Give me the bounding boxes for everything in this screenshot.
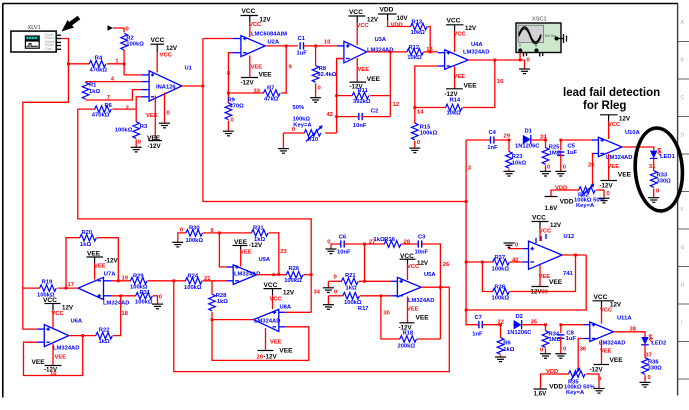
wire scope ground reference node 0 xyxy=(525,58,530,70)
svg-text:VEE: VEE xyxy=(259,71,273,78)
svg-text:10nF: 10nF xyxy=(353,123,367,129)
wire U8A plus input from node2 rail xyxy=(286,311,312,313)
svg-text:VEE: VEE xyxy=(454,74,466,80)
svg-text:-12V: -12V xyxy=(600,183,614,190)
svg-text:12V: 12V xyxy=(166,45,178,52)
ground below R36 xyxy=(640,382,651,387)
ground below R33 xyxy=(648,198,659,203)
VCC supply at U11A xyxy=(593,294,622,324)
resistor R14 feedback xyxy=(415,60,495,117)
svg-text:R19: R19 xyxy=(42,280,53,286)
resistor R17 xyxy=(328,289,390,312)
svg-text:VCC: VCC xyxy=(249,22,262,28)
ground at R30 left xyxy=(172,242,183,247)
svg-text:VCC: VCC xyxy=(400,253,414,260)
svg-text:1N1206C: 1N1206C xyxy=(515,144,540,150)
svg-text:R18: R18 xyxy=(403,330,414,336)
connector symbol node 0 at R2 top xyxy=(108,25,129,32)
svg-text:14: 14 xyxy=(417,110,424,116)
svg-text:16: 16 xyxy=(497,79,504,85)
svg-text:0: 0 xyxy=(527,58,530,64)
wire node 4 to U1 pin2 xyxy=(86,81,142,83)
svg-text:0: 0 xyxy=(648,375,651,381)
svg-text:R8: R8 xyxy=(319,66,327,72)
svg-text:U7A: U7A xyxy=(104,272,116,278)
svg-text:100kΩ: 100kΩ xyxy=(135,300,153,306)
svg-text:0: 0 xyxy=(515,242,518,248)
svg-text:VCC: VCC xyxy=(160,53,173,59)
VCC supply at U10A xyxy=(600,115,631,139)
svg-text:10kΩ: 10kΩ xyxy=(411,30,426,36)
svg-text:for Rleg: for Rleg xyxy=(583,100,626,112)
resistor R15 to ground xyxy=(412,123,438,148)
resistor R3 xyxy=(115,109,148,147)
ground at U12 plus xyxy=(504,243,515,248)
svg-text:12V: 12V xyxy=(260,17,272,24)
svg-text:R17: R17 xyxy=(358,306,369,312)
svg-text:0: 0 xyxy=(547,165,550,171)
VEE supply at U4A xyxy=(445,67,478,98)
feedback wire U5A output down to bottom long rail xyxy=(174,281,450,372)
U1 ground pin node 0 xyxy=(165,93,170,124)
VEE supply at U12 xyxy=(529,265,563,295)
svg-text:100kΩ: 100kΩ xyxy=(186,238,204,244)
VCC supply at U6A xyxy=(43,297,74,328)
svg-text:R21: R21 xyxy=(345,273,356,279)
svg-text:1.6V: 1.6V xyxy=(534,391,548,398)
svg-text:50%: 50% xyxy=(293,105,305,111)
svg-text:LM324AD: LM324AD xyxy=(599,341,625,347)
svg-text:100kΩ: 100kΩ xyxy=(492,296,510,302)
VCC supply at U2A xyxy=(241,8,272,37)
svg-text:1uF: 1uF xyxy=(566,336,577,342)
resistor R36 xyxy=(642,345,662,383)
svg-text:470Ω: 470Ω xyxy=(230,104,245,110)
ground below R25 xyxy=(540,171,551,176)
svg-text:35: 35 xyxy=(531,319,538,325)
svg-text:VCC: VCC xyxy=(52,311,65,317)
svg-text:0: 0 xyxy=(318,86,321,92)
wire chain to U11A plus xyxy=(561,324,583,326)
svg-text:0: 0 xyxy=(656,189,659,195)
svg-text:0: 0 xyxy=(126,27,129,33)
svg-text:VEE: VEE xyxy=(610,357,624,364)
svg-text:40: 40 xyxy=(512,257,518,263)
wire U10A output to LED1 xyxy=(622,147,654,151)
svg-text:VEE: VEE xyxy=(407,307,419,313)
ground at U1 pin xyxy=(159,123,170,128)
svg-text:-12V: -12V xyxy=(105,257,119,264)
svg-text:LED1: LED1 xyxy=(660,154,676,160)
svg-text:R16: R16 xyxy=(384,237,395,243)
op-amp U11A LM324AD xyxy=(583,316,632,347)
svg-text:R7: R7 xyxy=(267,85,274,91)
op-amp U3A LM324AD xyxy=(337,37,394,63)
svg-text:1kΩ: 1kΩ xyxy=(503,347,514,353)
svg-text:C3: C3 xyxy=(418,234,426,240)
svg-text:C7: C7 xyxy=(475,315,482,321)
resistor R28 xyxy=(209,281,229,320)
svg-text:38: 38 xyxy=(630,327,637,333)
resistor R6b to ground xyxy=(497,323,515,357)
svg-text:1kΩ: 1kΩ xyxy=(89,89,100,95)
svg-text:VEE: VEE xyxy=(549,279,563,286)
wire node 7 to U1 pin3 xyxy=(86,90,142,100)
svg-text:I: I xyxy=(681,320,682,326)
wire C6 junction down to U5A plus row xyxy=(364,244,366,281)
resistor R9 470ohm to ground xyxy=(225,92,244,132)
svg-text:LMC6084AIM: LMC6084AIM xyxy=(251,31,287,37)
svg-text:-12V: -12V xyxy=(264,354,278,361)
svg-text:0: 0 xyxy=(334,275,337,281)
svg-text:VEE: VEE xyxy=(234,239,248,246)
svg-text:C5: C5 xyxy=(567,144,575,150)
VEE supply at U7A xyxy=(87,250,119,279)
rail x=203: U2A plus input down to long horizontal xyxy=(203,39,466,202)
svg-text:VCC: VCC xyxy=(242,8,256,15)
wire R32 right to ground xyxy=(604,190,610,198)
svg-text:C: C xyxy=(681,95,685,101)
resistor R24 xyxy=(184,274,227,292)
svg-text:VEE: VEE xyxy=(464,82,478,89)
svg-text:34: 34 xyxy=(314,290,321,296)
svg-text:1kΩ: 1kΩ xyxy=(99,339,110,345)
svg-text:20: 20 xyxy=(257,355,263,361)
op-amp U6A LM324AD xyxy=(37,319,83,352)
svg-text:VCC: VCC xyxy=(532,215,546,222)
svg-text:10kΩ: 10kΩ xyxy=(447,111,462,117)
VCC supply at U8A xyxy=(264,282,295,309)
op-amp U1 INA126 xyxy=(142,65,193,101)
svg-text:VCC: VCC xyxy=(407,264,420,270)
svg-text:33: 33 xyxy=(254,89,261,95)
svg-text:R15: R15 xyxy=(420,125,431,131)
svg-text:100kΩ: 100kΩ xyxy=(492,266,510,272)
resistor R23 to ground xyxy=(506,139,527,172)
svg-text:LED2: LED2 xyxy=(651,341,666,347)
wire U6A minus feedback loop xyxy=(24,334,85,375)
ground below R8 xyxy=(310,98,321,103)
VEE supply at U3A xyxy=(350,58,381,91)
ground below R34 xyxy=(540,354,551,359)
ground at R32 right xyxy=(599,198,610,203)
wire U10A minus to R32 wiper, node 26 xyxy=(588,154,595,185)
svg-text:U1: U1 xyxy=(185,65,193,71)
svg-text:VCC: VCC xyxy=(608,122,621,128)
svg-text:0: 0 xyxy=(607,191,610,197)
ground at R31b right xyxy=(152,304,163,309)
resistor R19 xyxy=(23,280,56,299)
wire node2 rail down-right (long horizontal y=218.9) xyxy=(78,111,311,313)
svg-text:U12: U12 xyxy=(564,234,575,240)
svg-text:1kΩ: 1kΩ xyxy=(217,299,228,305)
svg-text:C2: C2 xyxy=(371,108,378,114)
wire U11A output to LED2 xyxy=(613,327,645,338)
svg-text:D: D xyxy=(681,133,685,139)
svg-text:31: 31 xyxy=(649,164,656,170)
annotation arrow xyxy=(62,18,80,32)
svg-text:VCC: VCC xyxy=(151,37,165,44)
wire U2A minus loop down to R7 row xyxy=(228,53,232,93)
svg-text:1uF: 1uF xyxy=(567,150,578,156)
ground below R23 xyxy=(504,171,515,176)
svg-text:100kΩ: 100kΩ xyxy=(344,300,362,306)
wire U4A minus loop down to R14 row and R15 xyxy=(415,66,438,123)
wire junction down-left rail to U7A input xyxy=(23,64,69,288)
svg-text:330Ω: 330Ω xyxy=(648,365,663,371)
resistor R6 xyxy=(78,103,136,118)
resistor R16 xyxy=(363,237,418,247)
diode D1 1N1206C xyxy=(515,129,546,150)
svg-text:-12V: -12V xyxy=(148,143,162,150)
op-amp U7A LM324AD (points left) xyxy=(78,272,129,307)
svg-text:LM324AD: LM324AD xyxy=(254,319,280,325)
svg-text:Key=A: Key=A xyxy=(566,390,585,396)
resistor R31b on U7A plus row xyxy=(112,290,162,306)
VDD supply at R35 xyxy=(534,369,564,398)
svg-text:VCC: VCC xyxy=(539,228,552,234)
op-amp U8A LM324AD (points left) xyxy=(254,305,292,332)
wire R35 right to ground xyxy=(598,374,601,389)
resistor R37 xyxy=(466,255,522,272)
node 42 and potentiometer R10 xyxy=(293,105,333,129)
svg-text:VCC: VCC xyxy=(357,23,370,29)
svg-text:VEE: VEE xyxy=(416,314,430,321)
node 9 vertical from output to R7 right xyxy=(285,46,287,93)
potentiometer R35 xyxy=(553,368,599,397)
svg-text:0: 0 xyxy=(167,111,170,117)
op-amp U12 741 xyxy=(523,234,575,277)
capacitor C5 to ground xyxy=(557,139,577,172)
wire U6A output to R22 xyxy=(69,335,96,337)
VEE supply at U8A xyxy=(257,328,294,361)
svg-text:U5A: U5A xyxy=(424,272,436,278)
resistor R34 to ground xyxy=(540,323,562,353)
svg-text:R23: R23 xyxy=(512,154,523,160)
svg-text:VEE: VEE xyxy=(147,135,161,142)
ground below R3 xyxy=(131,147,142,152)
svg-text:VDD: VDD xyxy=(555,185,567,191)
capacitor C7 xyxy=(466,310,500,337)
svg-text:0: 0 xyxy=(180,228,183,234)
svg-text:30: 30 xyxy=(383,311,389,317)
svg-text:R3: R3 xyxy=(140,124,148,130)
VCC supply at U4A xyxy=(446,18,477,52)
ground below R5 xyxy=(223,131,234,136)
svg-text:470kΩ: 470kΩ xyxy=(92,113,110,119)
LED LED1 xyxy=(650,148,676,160)
svg-text:VCC: VCC xyxy=(270,297,283,303)
svg-text:R29: R29 xyxy=(133,274,144,280)
wire U9A output xyxy=(257,273,287,276)
svg-text:12V: 12V xyxy=(619,116,631,123)
svg-text:100kΩ: 100kΩ xyxy=(293,116,311,122)
svg-text:R20: R20 xyxy=(82,230,93,236)
svg-text:12V: 12V xyxy=(465,25,477,32)
svg-text:0: 0 xyxy=(540,348,543,354)
svg-text:1kΩ: 1kΩ xyxy=(80,242,91,248)
VEE supply at U5A xyxy=(399,297,430,332)
wire R10 left to ground xyxy=(283,127,295,149)
svg-text:0: 0 xyxy=(417,140,420,146)
svg-text:12V: 12V xyxy=(62,304,74,311)
resistor R21 xyxy=(328,273,390,291)
resistor R18 xyxy=(398,330,441,349)
svg-text:36: 36 xyxy=(580,347,587,353)
VEE supply at U9A xyxy=(233,239,263,267)
svg-text:1uF: 1uF xyxy=(297,51,308,57)
capacitor C3 xyxy=(415,234,441,339)
annotation ellipse around LED1 xyxy=(632,126,685,212)
svg-text:R38: R38 xyxy=(495,285,506,291)
svg-text:VCC: VCC xyxy=(264,282,278,289)
svg-text:VEE: VEE xyxy=(240,250,252,256)
resistor R4 xyxy=(68,56,124,74)
svg-text:0: 0 xyxy=(598,377,601,383)
svg-text:U3A: U3A xyxy=(375,37,387,43)
VCC supply at U12 xyxy=(532,215,562,242)
svg-text:VDD: VDD xyxy=(380,7,394,14)
resistor R38 xyxy=(482,255,575,302)
svg-text:1.6V: 1.6V xyxy=(545,205,559,212)
svg-text:R14: R14 xyxy=(450,98,461,104)
VCC supply at U3A xyxy=(349,9,379,45)
svg-text:12V: 12V xyxy=(283,289,295,296)
resistor R31 feedback xyxy=(219,226,287,276)
wire U11A minus to R35 wiper, node 36 xyxy=(578,339,587,369)
wire XLV1 pin2 to node junction xyxy=(61,39,68,64)
svg-text:R30: R30 xyxy=(189,226,200,232)
op-amp U10A LM324AD xyxy=(592,130,641,161)
svg-text:VDD: VDD xyxy=(546,369,558,375)
svg-text:H: H xyxy=(681,283,685,289)
svg-text:R9: R9 xyxy=(228,97,236,103)
svg-text:10kΩ: 10kΩ xyxy=(407,55,422,61)
svg-text:R4: R4 xyxy=(95,56,103,62)
svg-text:LM324AD: LM324AD xyxy=(103,301,129,307)
svg-text:-12V: -12V xyxy=(590,367,604,374)
svg-text:LM324AD: LM324AD xyxy=(606,155,632,161)
resistor R29 xyxy=(112,274,186,291)
wire U8A minus feedback loop xyxy=(211,318,309,360)
svg-text:0: 0 xyxy=(159,295,162,301)
svg-text:2: 2 xyxy=(126,105,129,111)
wire R2 bottom to U1 pin1 xyxy=(124,64,142,75)
annotation text lead fail detection xyxy=(563,87,660,112)
svg-text:392kΩ: 392kΩ xyxy=(353,99,371,105)
svg-text:29: 29 xyxy=(504,133,511,139)
svg-text:U10A: U10A xyxy=(625,130,641,136)
svg-text:VEE: VEE xyxy=(358,67,370,73)
wire node2 to U1 pin4 xyxy=(136,97,141,109)
svg-text:47kΩ: 47kΩ xyxy=(264,97,279,103)
svg-text:330Ω: 330Ω xyxy=(657,179,672,185)
resistor R33 xyxy=(650,158,671,197)
svg-text:D1: D1 xyxy=(525,129,533,135)
wire U12 plus to ground xyxy=(509,242,523,248)
svg-text:7: 7 xyxy=(107,95,110,101)
svg-text:lead fail detection: lead fail detection xyxy=(563,87,660,99)
svg-text:12: 12 xyxy=(393,102,399,108)
ground below C5 xyxy=(555,171,566,176)
svg-text:R24: R24 xyxy=(188,274,199,280)
svg-text:F: F xyxy=(681,208,684,214)
svg-text:VEE: VEE xyxy=(94,264,106,270)
svg-text:VEE: VEE xyxy=(367,76,381,83)
svg-text:VEE: VEE xyxy=(618,172,632,179)
resistor R7 xyxy=(228,85,287,102)
wire node 6 down to U9A plus xyxy=(218,232,227,268)
potentiometer R32 xyxy=(563,184,605,209)
ground below C8 xyxy=(555,354,566,359)
svg-text:0: 0 xyxy=(334,289,337,295)
VEE supply at U11A xyxy=(590,340,624,374)
svg-text:C1: C1 xyxy=(298,36,306,42)
VEE supply at U10A xyxy=(600,154,632,190)
capacitor C1 xyxy=(297,36,316,57)
svg-text:26: 26 xyxy=(588,163,595,169)
ground at R21 left xyxy=(327,281,329,288)
op-amp U4A LM324AD xyxy=(438,42,489,69)
svg-text:0: 0 xyxy=(327,240,330,246)
svg-text:12V: 12V xyxy=(550,222,562,229)
svg-text:C6: C6 xyxy=(339,235,347,241)
svg-text:VEE: VEE xyxy=(87,250,101,257)
svg-text:23: 23 xyxy=(280,249,287,255)
svg-text:LM324AD: LM324AD xyxy=(408,298,434,304)
svg-text:100kΩ: 100kΩ xyxy=(284,278,302,284)
svg-text:VEE: VEE xyxy=(279,347,293,354)
svg-text:XSC1: XSC1 xyxy=(532,17,547,23)
ground below R15 xyxy=(409,148,420,153)
svg-text:VDD: VDD xyxy=(391,22,403,28)
capacitor C4 xyxy=(466,130,509,151)
wire U3A minus down (node 42 rail) xyxy=(337,59,344,130)
svg-text:21: 21 xyxy=(204,276,211,282)
VCC supply at U5A xyxy=(400,253,429,280)
svg-text:R1: R1 xyxy=(89,82,97,88)
svg-text:G: G xyxy=(681,245,685,251)
node 30 riser to R18 xyxy=(381,296,400,339)
svg-text:LM324AD: LM324AD xyxy=(53,346,79,352)
svg-text:R11: R11 xyxy=(358,88,369,94)
svg-text:-12V: -12V xyxy=(249,242,263,249)
svg-text:17: 17 xyxy=(68,282,74,288)
VEE supply at U1 xyxy=(146,96,162,151)
svg-text:C4: C4 xyxy=(489,130,497,136)
VEE supply at U6A xyxy=(32,344,67,377)
node 10 junction and wire to U3A plus xyxy=(314,40,337,48)
svg-text:18: 18 xyxy=(122,311,129,317)
svg-text:VCC: VCC xyxy=(594,294,608,301)
instrument XSC1 oscilloscope xyxy=(516,17,567,57)
svg-text:10nF: 10nF xyxy=(337,250,351,256)
svg-text:0: 0 xyxy=(138,140,141,146)
feedback right leg to U3A output, node 12 xyxy=(389,51,399,117)
svg-text:R12: R12 xyxy=(409,45,420,51)
resistor R20 feedback xyxy=(66,230,120,288)
wire chain to U10A plus xyxy=(561,139,592,141)
svg-text:100kΩ: 100kΩ xyxy=(115,127,133,133)
svg-text:VCC: VCC xyxy=(447,18,461,25)
svg-text:1N1206C: 1N1206C xyxy=(507,330,532,336)
svg-text:Key=A: Key=A xyxy=(293,123,312,129)
resistor R22 xyxy=(96,296,129,345)
svg-text:27: 27 xyxy=(369,239,375,245)
svg-text:U11A: U11A xyxy=(617,316,632,322)
op-amp U5A LM324AD xyxy=(391,272,437,304)
svg-text:U8A: U8A xyxy=(280,305,292,311)
